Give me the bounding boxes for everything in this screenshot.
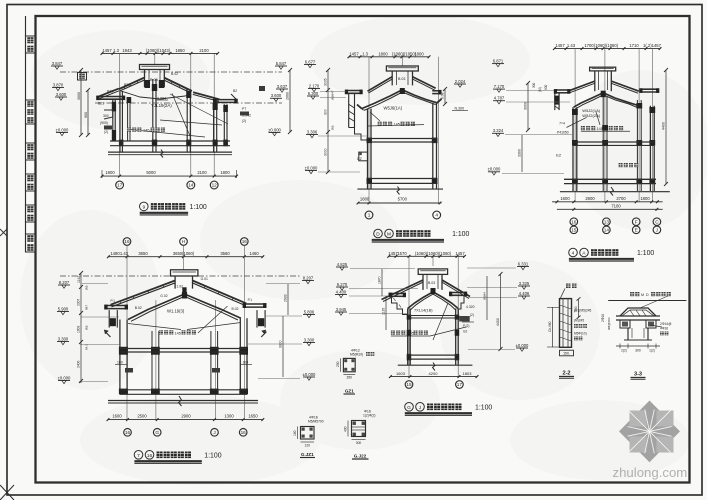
svg-text:(2): (2) — [104, 130, 108, 134]
title strip cell — [26, 174, 36, 191]
S2 main roof curve left — [362, 90, 403, 109]
GJZ2 detail box — [352, 421, 366, 437]
detail 3-3 column — [627, 328, 629, 340]
GZ1 bottom dim — [343, 374, 355, 376]
svg-text:Cb-960: Cb-960 — [548, 321, 552, 332]
S3 bottom dim 2 — [557, 208, 663, 210]
svg-text:1:100: 1:100 — [190, 204, 207, 211]
svg-text:400: 400 — [344, 426, 348, 432]
svg-text:PT: PT — [242, 107, 246, 111]
GZ1 detail box — [343, 358, 355, 371]
svg-text:±0.000: ±0.000 — [58, 375, 71, 380]
S2 left wing wall — [348, 93, 350, 127]
S5 right eave bar — [450, 292, 467, 294]
svg-text:3.870: 3.870 — [53, 82, 64, 87]
svg-text:145: 145 — [394, 123, 400, 127]
S1 title — [140, 202, 149, 211]
S2 base line — [357, 188, 443, 190]
svg-text:1870: 1870 — [378, 276, 382, 284]
svg-text:100: 100 — [117, 361, 123, 365]
svg-text:6.300: 6.300 — [308, 91, 319, 96]
S1 axis circle 12 — [210, 181, 218, 189]
detail 2-2 bottom dim — [560, 350, 574, 356]
svg-text:D: D — [376, 232, 380, 238]
S1 right wing roof tick — [231, 94, 236, 99]
svg-text:300: 300 — [532, 82, 536, 88]
title strip character — [27, 175, 33, 181]
S2 body right wall — [432, 103, 434, 189]
S3 right eave bar — [640, 88, 659, 90]
S1 right wing eave bar — [214, 99, 238, 101]
svg-text:4.825: 4.825 — [337, 262, 348, 267]
svg-text:1800: 1800 — [378, 51, 388, 56]
GJZ1 detail box — [301, 427, 315, 440]
svg-text:7=4: 7=4 — [559, 122, 565, 126]
svg-text:6.677: 6.677 — [305, 59, 316, 64]
S5 break mark — [433, 363, 436, 371]
svg-text:B21: B21 — [107, 90, 113, 94]
S4 right vert dims — [287, 284, 289, 315]
S4 axis circle G — [153, 429, 161, 437]
svg-text:2700: 2700 — [616, 196, 626, 201]
S4 chimney body — [174, 276, 176, 289]
title strip character — [27, 215, 33, 221]
svg-text:1700: 1700 — [584, 43, 594, 48]
svg-text:4.787: 4.787 — [494, 96, 505, 101]
svg-text:3300: 3300 — [279, 340, 283, 348]
svg-text:B2: B2 — [233, 89, 237, 93]
svg-text:300: 300 — [356, 441, 362, 445]
svg-text:1:100: 1:100 — [637, 250, 654, 257]
title strip character — [27, 117, 33, 123]
svg-text:3005: 3005 — [324, 78, 328, 86]
svg-text:7XL14(1B): 7XL14(1B) — [414, 308, 433, 313]
svg-text:M: M — [387, 232, 391, 238]
svg-text:B21: B21 — [98, 102, 104, 106]
svg-text:9: 9 — [142, 204, 145, 210]
S1 column a — [152, 79, 154, 152]
svg-text:(1060)(1050): (1060)(1050) — [392, 51, 417, 56]
title strip cell — [26, 143, 36, 160]
S1 axis line mid — [154, 53, 156, 64]
svg-text:(2): (2) — [470, 313, 474, 317]
svg-text:3650: 3650 — [138, 251, 148, 256]
S2 annotation leader — [368, 125, 424, 126]
svg-text:3400: 3400 — [77, 360, 81, 368]
svg-text:M: M — [641, 293, 644, 297]
S3 main roof curve right — [603, 93, 639, 106]
S3 title — [569, 248, 578, 257]
S5 axis circle 17 — [456, 381, 464, 389]
svg-text:B.03: B.03 — [150, 78, 158, 82]
svg-text:3.600: 3.600 — [56, 92, 67, 97]
S3 axis line c — [638, 49, 640, 202]
S5 upper roof right — [442, 280, 470, 297]
svg-text:G.01: G.01 — [201, 277, 208, 281]
S5 upper roof left — [382, 280, 424, 300]
S3 left ext lines — [506, 90, 554, 92]
S4 left eave tick — [105, 332, 110, 337]
svg-text:300: 300 — [103, 114, 109, 118]
svg-text:4: 4 — [572, 251, 575, 257]
svg-text:1.3: 1.3 — [362, 51, 368, 56]
svg-text:F: F — [635, 219, 638, 224]
title strip character — [27, 153, 33, 159]
S4 break mark — [179, 396, 182, 406]
S1 centerline upper — [60, 71, 282, 73]
S1 roof right lower slope — [193, 92, 219, 99]
S4 chimney cap — [171, 270, 198, 276]
detail 3-3 capital hatch — [630, 310, 634, 316]
S1 axis line 12 — [213, 53, 215, 176]
S4 roof curve right — [185, 294, 241, 318]
svg-text:M5/M5700: M5/M5700 — [308, 420, 324, 424]
S2 eave tip left — [357, 105, 362, 109]
S2 apex node — [400, 88, 405, 94]
S4 centerline — [60, 275, 300, 277]
S4 upper roof right — [193, 281, 247, 304]
svg-text:1(2)Φ(2): 1(2)Φ(2) — [363, 414, 376, 418]
S4 axis line 1 — [126, 246, 128, 420]
S1 left wing roof slope — [99, 89, 119, 97]
S4 base line — [108, 400, 258, 402]
S5 axis circle 15 — [405, 381, 413, 389]
svg-text:1:100: 1:100 — [475, 404, 492, 411]
svg-text:8.207: 8.207 — [59, 280, 70, 285]
svg-text:145: 145 — [597, 127, 603, 131]
S3 interior label — [619, 163, 623, 167]
S3 upper roof right — [611, 81, 639, 91]
svg-text:100: 100 — [243, 361, 249, 365]
S1 base line — [108, 151, 232, 153]
svg-text:3650(1060): 3650(1060) — [173, 251, 195, 256]
svg-text:1710: 1710 — [629, 43, 639, 48]
svg-text:3.324: 3.324 — [493, 128, 504, 133]
svg-text:(2): (2) — [242, 119, 246, 123]
S3 chimney body — [594, 71, 596, 91]
svg-text:M5Φ(10): M5Φ(10) — [574, 332, 587, 336]
S1 centerline lower — [95, 102, 282, 104]
svg-text:2600: 2600 — [585, 196, 595, 201]
title strip cell — [26, 234, 36, 252]
S1 break mark — [161, 150, 164, 158]
S1 floor slab — [110, 140, 230, 142]
svg-text:(M): (M) — [538, 87, 542, 92]
svg-text:3.847: 3.847 — [52, 61, 63, 66]
GJZ2 bottom dim — [352, 439, 366, 441]
svg-text:2900: 2900 — [181, 414, 191, 419]
S5 body right wall — [455, 309, 457, 366]
S5 right ext lines — [467, 267, 516, 269]
svg-text:J: J — [213, 430, 215, 435]
S5 body left wall — [407, 309, 409, 366]
svg-text:5700: 5700 — [398, 197, 408, 202]
svg-text:(1060)(1060): (1060)(1060) — [594, 43, 619, 48]
svg-text:1803: 1803 — [463, 371, 473, 376]
S3 upper roof left — [568, 81, 595, 91]
title strip character — [27, 37, 33, 43]
S1 interior wall pair — [127, 97, 129, 141]
svg-text:16: 16 — [147, 453, 153, 459]
svg-text:4.400: 4.400 — [336, 289, 347, 294]
S4 interior column b — [210, 331, 212, 394]
S2 axis line 4 — [438, 57, 440, 203]
S5 left eave bar — [390, 293, 406, 295]
svg-text:1600: 1600 — [560, 196, 570, 201]
svg-text:3000: 3000 — [324, 148, 328, 156]
svg-text:1142: 1142 — [77, 276, 81, 283]
GJZ1 left dim — [297, 427, 299, 440]
svg-text:1480: 1480 — [110, 251, 120, 256]
svg-text:±0.000: ±0.000 — [305, 165, 318, 170]
svg-text:1: 1 — [368, 213, 371, 218]
svg-text:15: 15 — [571, 228, 577, 233]
S2 upper roof left — [368, 77, 393, 92]
svg-text:2933: 2933 — [284, 294, 288, 302]
svg-text:P.1: P.1 — [248, 298, 253, 302]
svg-text:1135: 1135 — [382, 308, 386, 315]
S4 body right wall — [239, 318, 241, 394]
title strip character — [27, 101, 33, 107]
S3 axis circles row1 — [570, 218, 578, 226]
S4 axis circle 16b — [239, 429, 247, 437]
svg-text:14: 14 — [604, 228, 610, 233]
S1 bottom dim ext lines — [101, 170, 103, 178]
svg-text:±0.000: ±0.000 — [56, 127, 69, 132]
svg-text:(M)245: (M)245 — [574, 319, 584, 323]
svg-text:±0.000: ±0.000 — [516, 343, 529, 348]
svg-text:(M): (M) — [85, 286, 89, 291]
svg-text:16: 16 — [124, 239, 130, 244]
S3 wing hatch — [555, 106, 559, 109]
svg-text:6.08: 6.08 — [441, 92, 445, 99]
S1 left vert dim chain — [80, 70, 82, 135]
svg-text:2100: 2100 — [197, 170, 207, 175]
title strip character — [27, 144, 33, 150]
detail 3-3 leader — [640, 296, 668, 308]
svg-text:3.945: 3.945 — [336, 307, 347, 312]
S4 slab annotation — [159, 330, 163, 334]
svg-text:16: 16 — [241, 430, 247, 435]
svg-text:14: 14 — [188, 183, 194, 188]
S4 axis line 3 — [215, 300, 217, 420]
svg-text:15: 15 — [406, 382, 412, 387]
S5 bottom dim line — [390, 376, 477, 378]
S1 left outer wall — [112, 99, 114, 141]
S4 upper roof left — [111, 281, 176, 305]
S1 chimney base blobs — [145, 80, 151, 88]
S2 bottom dim line — [357, 202, 441, 204]
detail 2-2 leader label — [566, 284, 571, 289]
svg-text:300: 300 — [324, 109, 328, 115]
svg-text:G: G — [407, 405, 411, 411]
svg-text:1(.2)1457: 1(.2)1457 — [643, 43, 662, 48]
svg-text:1300: 1300 — [224, 414, 234, 419]
svg-text:887: 887 — [85, 305, 89, 310]
detail 2-2 left dim — [552, 307, 554, 347]
svg-text:350: 350 — [347, 376, 353, 380]
svg-text:G2: G2 — [463, 330, 467, 334]
S1 left main wall node — [119, 140, 124, 147]
svg-text:13: 13 — [604, 219, 610, 224]
svg-text:1600: 1600 — [112, 414, 122, 419]
svg-text:1457: 1457 — [555, 43, 565, 48]
S5 leader diag — [433, 303, 448, 340]
S4 GJ labels — [125, 368, 133, 373]
S4 axis line mid — [183, 246, 185, 271]
title strip character — [27, 244, 33, 251]
S2 top dimension line — [349, 56, 429, 58]
S4 right ext lines — [266, 283, 300, 285]
S2 floor beam — [368, 178, 437, 180]
svg-text:150.: 150. — [563, 352, 570, 356]
svg-text:1:100: 1:100 — [452, 231, 469, 238]
title strip vertical rails — [25, 16, 27, 252]
svg-text:(M): (M) — [331, 126, 335, 131]
svg-text:180: 180 — [293, 430, 297, 436]
S3 slab annotation — [581, 126, 585, 130]
svg-text:4: 4 — [435, 213, 438, 218]
svg-text:W5J2(2A): W5J2(2A) — [582, 113, 600, 118]
S4 bottom dim line — [108, 419, 263, 421]
svg-text:D: D — [646, 293, 649, 297]
S2 axis line mid — [401, 57, 403, 66]
svg-text:3300: 3300 — [518, 149, 522, 157]
S2 chimney cap — [386, 66, 418, 71]
S3 axis line d — [651, 49, 653, 202]
svg-text:7100: 7100 — [611, 204, 621, 209]
S2 eave tip right — [437, 99, 441, 103]
S1 chimney cap — [140, 65, 170, 70]
detail 2-2 right dim 390 — [578, 299, 580, 318]
S3 left eave bar — [555, 89, 570, 91]
svg-text:GZ: GZ — [357, 157, 363, 161]
svg-text:145: 145 — [143, 128, 150, 133]
S3 left vert dims — [527, 83, 529, 130]
S1 roof right slope — [164, 78, 192, 91]
svg-text:1457: 1457 — [349, 51, 359, 56]
detail 2-2 wall — [560, 299, 572, 348]
S4 title — [134, 451, 143, 460]
S3 mid slab — [573, 141, 654, 143]
svg-text:N.300: N.300 — [455, 107, 465, 111]
S3 interior column b — [602, 97, 604, 191]
svg-text:4400: 4400 — [496, 318, 500, 326]
svg-text:3.325: 3.325 — [519, 281, 530, 286]
S5 title — [405, 403, 414, 412]
S4 floor slab — [120, 389, 247, 391]
svg-text:7: 7 — [137, 453, 140, 459]
svg-text:2Φ14@: 2Φ14@ — [660, 322, 672, 326]
S5 left vert dims — [381, 269, 383, 296]
S1 left wing eave bar — [97, 96, 125, 98]
S3 interior column c — [636, 100, 638, 191]
svg-text:3-3: 3-3 — [634, 372, 642, 378]
svg-text:5000: 5000 — [146, 170, 156, 175]
svg-text:GZ1: GZ1 — [345, 389, 354, 394]
svg-text:5.847: 5.847 — [276, 61, 287, 66]
svg-text:±0.000: ±0.000 — [488, 167, 501, 172]
svg-text:p=2(M5)245: p=2(M5)245 — [574, 309, 592, 313]
S3 bottom dim 1 — [552, 201, 663, 203]
svg-text:6.871: 6.871 — [493, 58, 504, 63]
S3 body left wall — [572, 107, 574, 191]
S4 top dimension line — [108, 256, 262, 258]
detail 3-3 header label — [630, 292, 634, 296]
svg-text:(M): (M) — [85, 326, 89, 331]
S1 bottom dim line — [102, 175, 237, 177]
S3 axis line b — [604, 49, 606, 202]
svg-text:17: 17 — [117, 183, 123, 188]
S2 upper roof right — [413, 77, 436, 89]
svg-text:1943: 1943 — [122, 48, 132, 53]
svg-text:C: C — [655, 219, 659, 224]
svg-text:(M)84: (M)84 — [483, 292, 487, 300]
svg-text:1.45: 1.45 — [407, 332, 414, 336]
S4 axis line 2 — [155, 300, 157, 420]
detail 2-2 hatch — [560, 305, 572, 309]
svg-text:B.03: B.03 — [428, 281, 435, 285]
S4 apex node — [182, 292, 187, 299]
svg-text:7.170: 7.170 — [494, 84, 505, 89]
title strip character — [27, 46, 33, 52]
S3 left wing wall — [554, 93, 556, 110]
title strip character — [27, 235, 33, 242]
svg-text:300: 300 — [635, 349, 641, 353]
S1 roof curve interior — [121, 91, 191, 99]
svg-text:6.270: 6.270 — [337, 282, 348, 287]
S2 left eave bar — [346, 90, 362, 92]
corner X mark bottom-left — [0, 485, 14, 500]
svg-text:W1.19(3): W1.19(3) — [167, 309, 185, 314]
svg-text:1.3: 1.3 — [113, 48, 119, 53]
svg-text:1.43: 1.43 — [120, 251, 129, 256]
S2 GZ detail box — [359, 152, 368, 161]
svg-text:4.406: 4.406 — [519, 291, 530, 296]
S3 floor beam — [564, 178, 656, 180]
S3 axis line a — [574, 49, 576, 202]
svg-text:P41050: P41050 — [557, 130, 569, 134]
S5 right wing steps — [458, 295, 464, 314]
S3 right vert dim — [665, 70, 667, 184]
svg-text:1457: 1457 — [102, 48, 112, 53]
svg-text:3307: 3307 — [77, 298, 81, 306]
detail 3-3 capital — [620, 308, 656, 316]
S2 left wing steps — [349, 128, 368, 141]
S1 leader diag 3 — [160, 120, 222, 125]
left edge X mark — [0, 229, 7, 236]
S2 axis circle 4 — [433, 211, 441, 219]
S1 chimney body — [144, 70, 146, 88]
S1 left boxed glyph — [78, 73, 87, 81]
S2 slab annotation — [378, 122, 382, 126]
S5 base line — [398, 364, 473, 366]
svg-text:3000: 3000 — [524, 102, 528, 110]
svg-text:(900): (900) — [100, 121, 108, 125]
GJZ1 bottom dim — [301, 441, 315, 443]
svg-text:W5J6(1A): W5J6(1A) — [384, 106, 403, 111]
S3 base line — [560, 191, 670, 193]
svg-text:1850: 1850 — [175, 48, 185, 53]
S3 body right wall — [649, 106, 651, 191]
svg-text:17: 17 — [457, 382, 463, 387]
svg-text:4400: 4400 — [662, 122, 666, 130]
S4 interior column a — [151, 331, 153, 394]
S3 leader lines — [566, 117, 586, 127]
S2 mid slab — [368, 138, 437, 140]
S4 leader diag — [198, 306, 228, 333]
S5 axis line 17 — [457, 256, 459, 376]
